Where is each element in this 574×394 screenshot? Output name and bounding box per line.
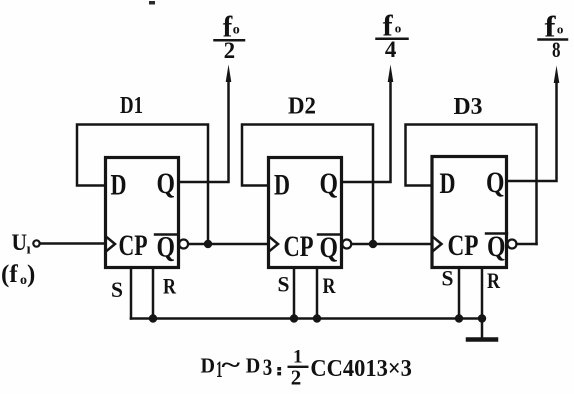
svg-text:D3: D3 [454, 94, 483, 120]
scan speck [149, 1, 155, 5]
svg-text:CP: CP [448, 229, 479, 262]
clock edge triangle CP3 [433, 237, 442, 251]
wire: S2 to reset bus [293, 268, 296, 319]
overline of Q2-bar label [318, 233, 339, 235]
ground symbol [468, 337, 496, 342]
svg-text:Q: Q [320, 231, 339, 264]
wire: Q2 output to fo/4 [342, 79, 391, 182]
junction dot R1/bus [149, 314, 157, 322]
svg-text:(f: (f [1, 261, 18, 288]
svg-text:3: 3 [263, 355, 273, 380]
flip-flop D1 box [106, 158, 179, 268]
svg-text:S: S [111, 277, 123, 302]
svg-text:S: S [442, 266, 454, 291]
wire: Q3-bar to D3 feedback loop [406, 125, 537, 245]
wire: common S/R bus [131, 317, 483, 320]
svg-text:2: 2 [291, 366, 302, 390]
caption colon [277, 367, 281, 371]
inverter bubble Q3-bar [508, 240, 517, 249]
inverter bubble Q1-bar [179, 240, 188, 249]
junction dot node Q1-bar [204, 240, 212, 248]
overline of Q1-bar label [155, 233, 176, 235]
junction dot node Q2-bar [369, 240, 377, 248]
overline of Q3-bar label [486, 232, 507, 234]
junction dot S2/bus [290, 314, 298, 322]
arrowhead fo/8 [554, 66, 560, 84]
svg-text:2: 2 [224, 38, 236, 63]
svg-text:D: D [111, 169, 127, 202]
wire: Q2-bar to CP3 [352, 243, 433, 246]
fraction bar fo/2 [215, 39, 245, 42]
svg-text:Q: Q [157, 231, 176, 264]
wire: S3 to reset bus [458, 268, 461, 319]
svg-text:Q: Q [320, 167, 339, 200]
svg-text:): ) [27, 261, 35, 288]
wire: Q1-bar to CP2 [188, 243, 268, 246]
clock edge triangle CP2 [270, 237, 279, 251]
svg-text:D2: D2 [288, 94, 316, 120]
wire: R1 to reset bus [152, 268, 155, 319]
svg-text:D1: D1 [120, 93, 143, 119]
clock edge triangle CP1 [107, 237, 116, 251]
svg-text:o: o [557, 22, 564, 37]
wire: R2 to reset bus [316, 268, 319, 319]
wire: S1 to reset bus [130, 268, 133, 319]
svg-text:o: o [20, 273, 27, 288]
junction dot R3/bus [478, 314, 486, 322]
wire: Q3 output to fo/8 [507, 79, 557, 181]
fraction bar fo/8 [539, 38, 568, 41]
svg-text:o: o [233, 23, 240, 38]
arrowhead fo/4 [388, 65, 394, 83]
svg-text:Q: Q [486, 166, 505, 199]
flip-flop D3 box [432, 157, 507, 268]
svg-text:CC4013×3: CC4013×3 [310, 355, 412, 382]
arrowhead fo/2 [226, 65, 232, 83]
svg-text:R: R [487, 268, 501, 293]
wire: Q3-bar to feedback loop [517, 243, 537, 246]
wire: Q1-bar to D1 feedback loop [77, 125, 208, 245]
svg-text:CP: CP [119, 229, 148, 262]
svg-text:~: ~ [222, 353, 241, 379]
svg-text:R: R [323, 273, 337, 298]
fraction bar 1/2 in caption [289, 366, 308, 368]
wire: Ui to CP1 [40, 242, 106, 245]
junction dot S3/bus [455, 314, 463, 322]
svg-text:1: 1 [293, 347, 303, 368]
svg-text:ı: ı [27, 242, 31, 258]
svg-text:Q: Q [487, 230, 506, 263]
inverter bubble Q2-bar [342, 240, 351, 249]
svg-text:S: S [278, 272, 290, 297]
wire: Q1 output to fo/2 [179, 79, 229, 182]
svg-text:8: 8 [552, 37, 561, 62]
svg-text:Q: Q [157, 167, 176, 200]
svg-text:D: D [201, 354, 216, 378]
flip-flop D2 box [269, 158, 342, 268]
svg-text:o: o [395, 21, 402, 36]
svg-text:4: 4 [385, 37, 397, 62]
svg-text:D: D [246, 354, 260, 378]
svg-text:D: D [274, 169, 290, 202]
input terminal circle Ui [33, 240, 39, 246]
svg-text:CP: CP [284, 230, 314, 263]
wire: R3 to ground [481, 268, 484, 339]
fraction bar fo/4 [377, 38, 408, 41]
junction dot R2/bus [313, 314, 321, 322]
wire: Q2-bar to D2 feedback loop [242, 125, 373, 245]
svg-text:R: R [163, 274, 177, 299]
svg-text:U: U [12, 230, 28, 255]
svg-text:D: D [440, 167, 456, 200]
